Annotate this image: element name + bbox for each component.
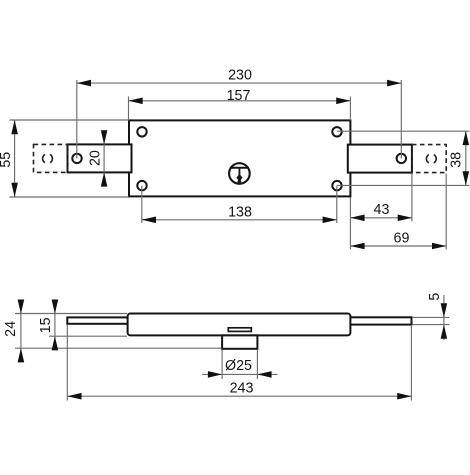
left dashed tab (hidden position) (34, 144, 68, 172)
right dashed hole (426, 155, 436, 163)
ext d25 right (256, 350, 258, 379)
69 arrows (350, 243, 364, 250)
ext 55 bottom (10, 196, 129, 198)
20 arrows (outside) (101, 130, 108, 144)
ext 15 bottom (49, 335, 127, 337)
plate hole top-left (137, 127, 146, 136)
dim 43 (350, 217, 412, 219)
43 arrows (350, 215, 364, 222)
keyway slot (228, 328, 251, 332)
svg-text:43: 43 (374, 202, 390, 218)
dim 157 (129, 100, 351, 102)
ext 5 top (412, 316, 450, 318)
left dashed hole (43, 155, 53, 163)
plate body (129, 120, 350, 196)
38 arrows (inside) (463, 131, 470, 145)
left rod (67, 317, 130, 323)
ext 138 left (141, 186, 143, 223)
dim 230 (77, 82, 402, 84)
right tab hole (397, 154, 406, 163)
svg-text:230: 230 (228, 68, 252, 84)
plate hole bottom-right (332, 181, 341, 190)
svg-text:20: 20 (87, 150, 103, 166)
ext 43 right (411, 174, 413, 222)
dim 138 (142, 219, 337, 221)
svg-text:55: 55 (0, 152, 14, 168)
plate hole top-right (332, 127, 341, 136)
left mounting tab (68, 144, 132, 172)
right dashed tab (hidden position) (412, 145, 446, 173)
ext 138 right (336, 186, 338, 223)
5 arrows (outside) (441, 303, 448, 317)
243 arrows (67, 393, 81, 400)
dim 55 (14, 120, 16, 197)
ext 5 bottom (412, 324, 450, 326)
svg-text:5: 5 (427, 293, 443, 301)
230 arrows (77, 80, 91, 87)
dim 24 (20, 300, 22, 363)
right rod (349, 317, 412, 324)
15 arrows (outside) (52, 300, 59, 314)
dim 20 (103, 130, 105, 187)
cylinder housing (222, 335, 257, 348)
svg-text:69: 69 (394, 230, 410, 246)
right mounting tab (348, 145, 412, 173)
ext d25 left (221, 350, 223, 379)
ext 230 left (76, 80, 78, 159)
ext body top (24/15) (15, 313, 127, 315)
dim 69 (350, 245, 446, 247)
dim d25 (202, 373, 278, 375)
ext 69 right (445, 174, 447, 250)
24 arrows (outside) (18, 300, 25, 314)
d25 arrows (outside) (208, 371, 222, 378)
ext 243 left (66, 325, 68, 401)
svg-text:Ø25: Ø25 (225, 358, 252, 374)
ext 38 top (337, 130, 470, 132)
plate hole bottom-left (137, 181, 146, 190)
svg-text:157: 157 (227, 88, 251, 104)
svg-text:15: 15 (38, 317, 54, 333)
138 arrows (142, 217, 156, 224)
ext 55 top (10, 119, 129, 121)
lock body (128, 314, 351, 336)
svg-text:24: 24 (3, 321, 19, 337)
svg-text:138: 138 (228, 204, 252, 220)
svg-text:38: 38 (449, 152, 465, 168)
ext 157 left (128, 97, 130, 121)
ext 43-69 left (349, 198, 351, 250)
ext 243 right (410, 326, 412, 401)
dim 38 (465, 131, 467, 186)
55 arrows (11, 120, 18, 134)
cylinder face (circle + chord + keyway) (229, 163, 250, 184)
ext 230 right (400, 80, 402, 159)
left tab hole (72, 154, 81, 163)
svg-text:243: 243 (230, 381, 254, 397)
ext 24 bottom (15, 347, 222, 349)
157 arrows (129, 98, 143, 105)
dim 15 (54, 300, 56, 351)
ext 157 right (349, 97, 351, 121)
dim 243 (67, 395, 411, 397)
ext 38 bottom (337, 184, 470, 186)
dim 5 (443, 295, 445, 340)
